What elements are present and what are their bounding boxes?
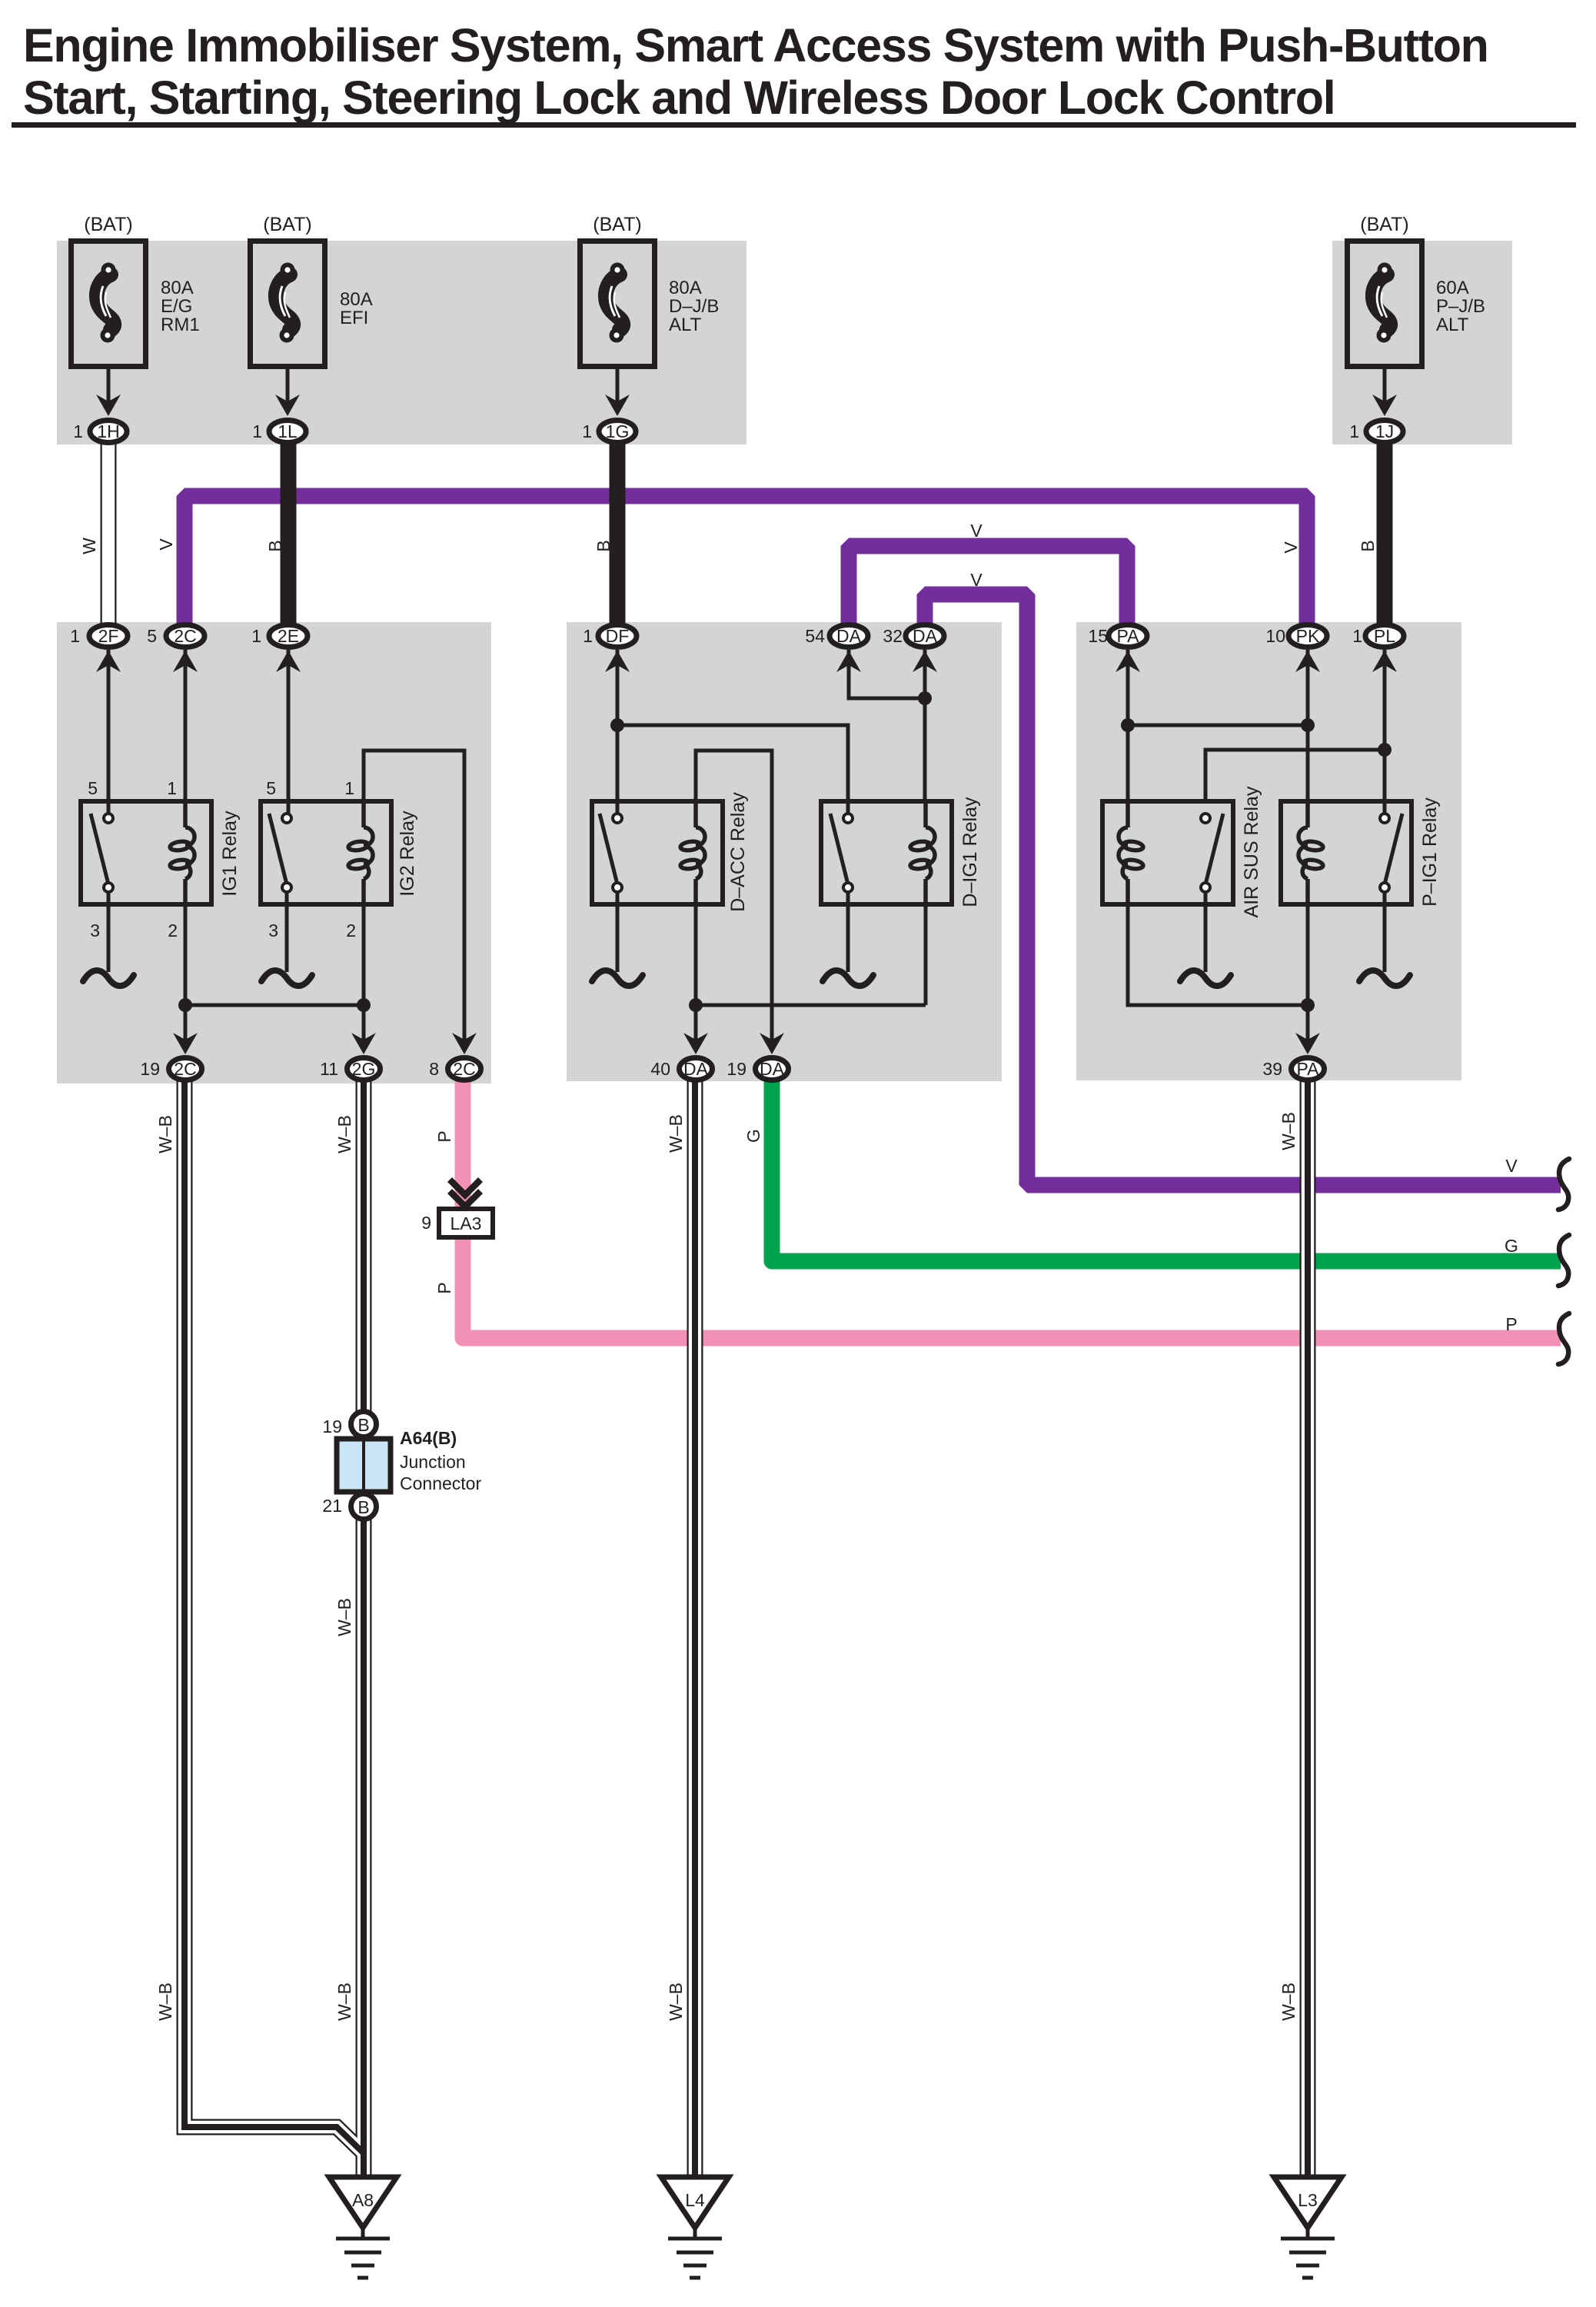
svg-text:19: 19 — [322, 1416, 342, 1436]
svg-text:W–B: W–B — [1278, 1982, 1298, 2021]
svg-text:19: 19 — [727, 1059, 746, 1079]
svg-text:80A: 80A — [340, 289, 373, 310]
svg-text:W–B: W–B — [666, 1114, 686, 1153]
svg-text:W–B: W–B — [666, 1982, 686, 2021]
svg-text:2F: 2F — [98, 626, 119, 646]
svg-text:W–B: W–B — [334, 1598, 354, 1636]
svg-text:2E: 2E — [278, 626, 299, 646]
svg-text:80A: 80A — [669, 278, 702, 298]
svg-text:LA3: LA3 — [451, 1213, 482, 1233]
svg-text:IG2 Relay: IG2 Relay — [397, 811, 418, 897]
svg-text:60A: 60A — [1436, 278, 1469, 298]
svg-text:5: 5 — [147, 626, 157, 646]
svg-text:Connector: Connector — [400, 1473, 481, 1493]
svg-text:ALT: ALT — [1436, 315, 1469, 335]
svg-text:1: 1 — [73, 421, 83, 441]
svg-text:W–B: W–B — [155, 1115, 175, 1153]
svg-text:19: 19 — [140, 1059, 160, 1079]
svg-text:B: B — [1358, 540, 1378, 551]
svg-text:G: G — [743, 1129, 763, 1143]
svg-text:V: V — [970, 521, 983, 541]
svg-text:2G: 2G — [352, 1059, 376, 1079]
svg-text:D–J/B: D–J/B — [669, 296, 719, 317]
svg-text:1: 1 — [251, 626, 261, 646]
svg-text:2C: 2C — [174, 626, 196, 646]
svg-text:DA: DA — [760, 1059, 785, 1079]
svg-text:RM1: RM1 — [161, 315, 200, 335]
svg-text:1: 1 — [167, 778, 177, 798]
svg-text:L3: L3 — [1298, 2190, 1318, 2210]
svg-text:2: 2 — [168, 920, 178, 940]
svg-text:E/G: E/G — [161, 296, 192, 317]
svg-text:B: B — [265, 540, 285, 551]
svg-text:8: 8 — [429, 1059, 439, 1079]
svg-text:B: B — [357, 1497, 369, 1517]
svg-text:DA: DA — [683, 1059, 709, 1079]
svg-text:5: 5 — [266, 778, 276, 798]
svg-text:(BAT): (BAT) — [1360, 214, 1408, 235]
svg-text:DA: DA — [836, 626, 862, 646]
svg-text:V: V — [1505, 1156, 1518, 1176]
svg-text:21: 21 — [322, 1496, 342, 1516]
svg-text:EFI: EFI — [340, 308, 368, 328]
svg-text:1H: 1H — [97, 421, 119, 441]
svg-text:P–J/B: P–J/B — [1436, 296, 1485, 317]
svg-text:Engine Immobiliser System, Sma: Engine Immobiliser System, Smart Access … — [23, 19, 1488, 72]
svg-text:32: 32 — [883, 626, 903, 646]
svg-text:A8: A8 — [352, 2190, 374, 2210]
svg-text:V: V — [1281, 541, 1301, 554]
svg-text:V: V — [970, 570, 983, 590]
svg-text:D–ACC Relay: D–ACC Relay — [727, 792, 749, 912]
svg-text:11: 11 — [320, 1059, 338, 1079]
svg-text:D–IG1 Relay: D–IG1 Relay — [959, 797, 981, 907]
svg-text:DA: DA — [913, 626, 938, 646]
svg-text:2C: 2C — [453, 1059, 475, 1079]
svg-text:W–B: W–B — [155, 1982, 175, 2021]
svg-text:1G: 1G — [606, 421, 630, 441]
svg-text:54: 54 — [805, 626, 825, 646]
svg-text:1: 1 — [1352, 626, 1362, 646]
svg-text:2C: 2C — [174, 1059, 196, 1079]
svg-text:15: 15 — [1088, 626, 1108, 646]
svg-text:5: 5 — [88, 778, 98, 798]
svg-text:IG1 Relay: IG1 Relay — [219, 811, 241, 897]
svg-text:W–B: W–B — [1278, 1112, 1298, 1150]
svg-text:(BAT): (BAT) — [593, 214, 641, 235]
svg-text:PA: PA — [1117, 626, 1140, 646]
svg-text:B: B — [594, 540, 613, 551]
svg-text:(BAT): (BAT) — [263, 214, 311, 235]
svg-text:P: P — [434, 1282, 454, 1293]
svg-text:1: 1 — [1349, 421, 1359, 441]
svg-text:B: B — [357, 1415, 369, 1435]
svg-text:2: 2 — [346, 920, 356, 940]
svg-text:PK: PK — [1296, 626, 1320, 646]
svg-text:P–IG1 Relay: P–IG1 Relay — [1419, 797, 1441, 907]
svg-text:10: 10 — [1265, 626, 1285, 646]
svg-text:PA: PA — [1297, 1059, 1320, 1079]
svg-text:A64(B): A64(B) — [400, 1428, 457, 1448]
svg-text:1: 1 — [344, 778, 354, 798]
svg-text:80A: 80A — [161, 278, 194, 298]
svg-text:W–B: W–B — [334, 1115, 354, 1153]
svg-text:P: P — [1505, 1314, 1517, 1334]
svg-text:W: W — [79, 538, 99, 554]
svg-text:G: G — [1505, 1236, 1518, 1256]
svg-text:DF: DF — [606, 626, 630, 646]
svg-text:1J: 1J — [1375, 421, 1394, 441]
svg-text:39: 39 — [1262, 1059, 1282, 1079]
svg-text:ALT: ALT — [669, 315, 702, 335]
svg-text:1: 1 — [70, 626, 80, 646]
svg-text:V: V — [156, 538, 176, 551]
svg-text:1: 1 — [583, 626, 593, 646]
svg-text:L4: L4 — [685, 2190, 705, 2210]
svg-text:PL: PL — [1374, 626, 1395, 646]
svg-text:W–B: W–B — [334, 1982, 354, 2021]
svg-text:3: 3 — [268, 920, 278, 940]
svg-text:AIR SUS Relay: AIR SUS Relay — [1241, 786, 1262, 917]
svg-text:Junction: Junction — [400, 1452, 466, 1472]
svg-text:40: 40 — [650, 1059, 670, 1079]
svg-text:1: 1 — [252, 421, 262, 441]
svg-text:3: 3 — [90, 920, 100, 940]
svg-text:Start, Starting, Steering Lock: Start, Starting, Steering Lock and Wirel… — [23, 72, 1335, 124]
svg-text:(BAT): (BAT) — [84, 214, 132, 235]
svg-text:1: 1 — [582, 421, 592, 441]
svg-text:P: P — [434, 1130, 454, 1142]
svg-text:9: 9 — [421, 1213, 431, 1233]
svg-text:1L: 1L — [278, 421, 298, 441]
